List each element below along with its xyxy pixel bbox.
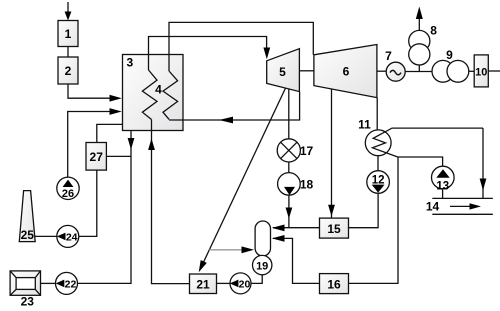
shaft wire: turbine 5 to turbine 6 bbox=[299, 70, 314, 72]
svg-text:8: 8 bbox=[430, 24, 437, 38]
wire: boiler 3 ash down to pump 22 with down arrow bbox=[78, 131, 135, 284]
wire: valve 17 to pump 18 bbox=[288, 162, 290, 173]
hopper 23 bbox=[10, 271, 40, 309]
wire: turbine 6 extraction down to heater 15 with arrow bbox=[328, 89, 335, 218]
pump 13 bbox=[432, 166, 455, 192]
wire: transformer 9 to box 10 bbox=[469, 70, 474, 72]
svg-text:16: 16 bbox=[327, 278, 341, 292]
svg-text:18: 18 bbox=[300, 178, 314, 192]
svg-text:10: 10 bbox=[475, 67, 487, 79]
wire: extraction diagonal from turbine 5 to box 21 with arrow bbox=[199, 88, 286, 272]
deaerator vessel 19 bbox=[255, 221, 270, 256]
wire: coil4 right top to turbine 6 inlet bbox=[169, 22, 313, 71]
wire: fan 24 to stack 25 bbox=[35, 235, 57, 237]
transformer 9 bbox=[432, 48, 469, 82]
svg-text:22: 22 bbox=[65, 278, 77, 290]
svg-text:21: 21 bbox=[196, 278, 210, 292]
svg-text:24: 24 bbox=[66, 231, 78, 243]
pump 18 bbox=[278, 173, 314, 196]
wire: condenser 11 outlet to pump 13 junction bbox=[398, 157, 443, 166]
wire: pump 18 down to deaerator line with arrow bbox=[286, 195, 293, 228]
heat-exchanger coil 4 left (economizer/evaporator) bbox=[142, 70, 157, 120]
wire: cooling water down with arrow to stream 14 bbox=[480, 128, 487, 198]
wire: box 10 to edge bbox=[488, 70, 500, 72]
svg-text:2: 2 bbox=[65, 64, 72, 78]
pump 20 bbox=[230, 273, 251, 294]
wire: heater 15 to deaerator 19 with arrow bbox=[272, 225, 320, 232]
wire: feed arrow into box 1 bbox=[65, 2, 72, 21]
wire: box2 to boiler 3 with arrow bbox=[68, 84, 122, 102]
svg-text:3: 3 bbox=[127, 56, 134, 70]
box 21 bbox=[190, 274, 217, 294]
svg-text:1: 1 bbox=[65, 27, 72, 41]
tank circle 19 bbox=[253, 255, 272, 274]
wire: air preheater 27 to flue duct bbox=[106, 155, 131, 157]
wire: box1 to box2 bbox=[67, 47, 69, 58]
pump 12 bbox=[367, 171, 390, 194]
generator 7 bbox=[385, 49, 405, 81]
box 2 bbox=[58, 57, 78, 84]
stream 14 channel bottom line bbox=[432, 213, 493, 215]
wire: generator 7 to transformer 9 bbox=[405, 71, 432, 73]
wire: heater 16 to deaerator 19 with arrow bbox=[272, 235, 320, 283]
svg-text:27: 27 bbox=[90, 150, 104, 164]
wire: hopper 23 to pump 22 bbox=[41, 282, 56, 284]
wire: cold reheat from turbine 5 back to coil 4 with left arrow bbox=[169, 92, 300, 124]
svg-text:11: 11 bbox=[358, 118, 371, 132]
turbine 5 bbox=[267, 49, 300, 92]
svg-text:4: 4 bbox=[155, 83, 162, 97]
svg-text:23: 23 bbox=[21, 295, 35, 309]
box 10 (grid) bbox=[474, 55, 488, 87]
wire: preheater 27 top to boiler 3 bbox=[97, 124, 123, 142]
svg-text:15: 15 bbox=[327, 222, 341, 236]
svg-text:14: 14 bbox=[426, 200, 440, 214]
turbine 6 bbox=[314, 45, 377, 98]
stack 25 bbox=[19, 191, 35, 242]
svg-text:9: 9 bbox=[446, 48, 453, 62]
transformer 8 bbox=[409, 7, 438, 72]
heater 15 bbox=[320, 218, 349, 238]
svg-text:17: 17 bbox=[300, 144, 314, 158]
condenser 11 bbox=[358, 118, 483, 157]
box 1 bbox=[58, 21, 78, 47]
wire: turbine 5 bleed down to valve 17 bbox=[288, 89, 290, 139]
boiler 3 bbox=[123, 55, 184, 131]
svg-text:7: 7 bbox=[385, 49, 392, 63]
stream 14 flow arrow bbox=[450, 203, 481, 209]
wire: coil4 left top to turbine 5 inlet with arrow bbox=[149, 37, 271, 71]
heat-exchanger coil 4 right (reheater) bbox=[163, 71, 178, 119]
svg-text:25: 25 bbox=[21, 228, 35, 242]
air preheater 27 bbox=[86, 143, 106, 171]
fan 24 bbox=[57, 225, 79, 247]
wire: tank 19 to pump 20 bbox=[251, 275, 262, 284]
valve 17 bbox=[277, 139, 313, 162]
wire: condenser 11 to pump 12 bbox=[377, 156, 379, 171]
fan 26 bbox=[57, 177, 79, 200]
svg-text:20: 20 bbox=[239, 278, 251, 290]
wire: box 21 feedwater up to coil 4 with up arrow bbox=[148, 120, 189, 284]
heater 16 bbox=[320, 274, 349, 294]
pump 22 bbox=[56, 272, 78, 294]
stream 14 channel top line bbox=[432, 197, 493, 199]
wire: preheater 27 bottom to fan 24 bbox=[79, 170, 97, 236]
wire: pump 20 to box 21 bbox=[217, 282, 231, 284]
svg-text:6: 6 bbox=[343, 65, 350, 79]
svg-text:5: 5 bbox=[279, 65, 286, 79]
wire: heater 16 to condenser 11 outlet bbox=[349, 157, 399, 283]
wire: fan 26 to boiler 3 with arrow bbox=[68, 108, 122, 177]
wire: pump 13 to stream 14 bbox=[442, 189, 444, 199]
wire: turbine 6 to generator 7 bbox=[377, 70, 386, 72]
wire: turbine 6 exhaust down to condenser 11 bbox=[376, 98, 378, 130]
svg-text:26: 26 bbox=[62, 188, 74, 200]
svg-text:19: 19 bbox=[256, 260, 268, 272]
wire: gray tap from diagonal to deaerator 19 with arrow bbox=[209, 246, 254, 253]
wire: pump 12 down to heater 15 bbox=[349, 193, 379, 227]
